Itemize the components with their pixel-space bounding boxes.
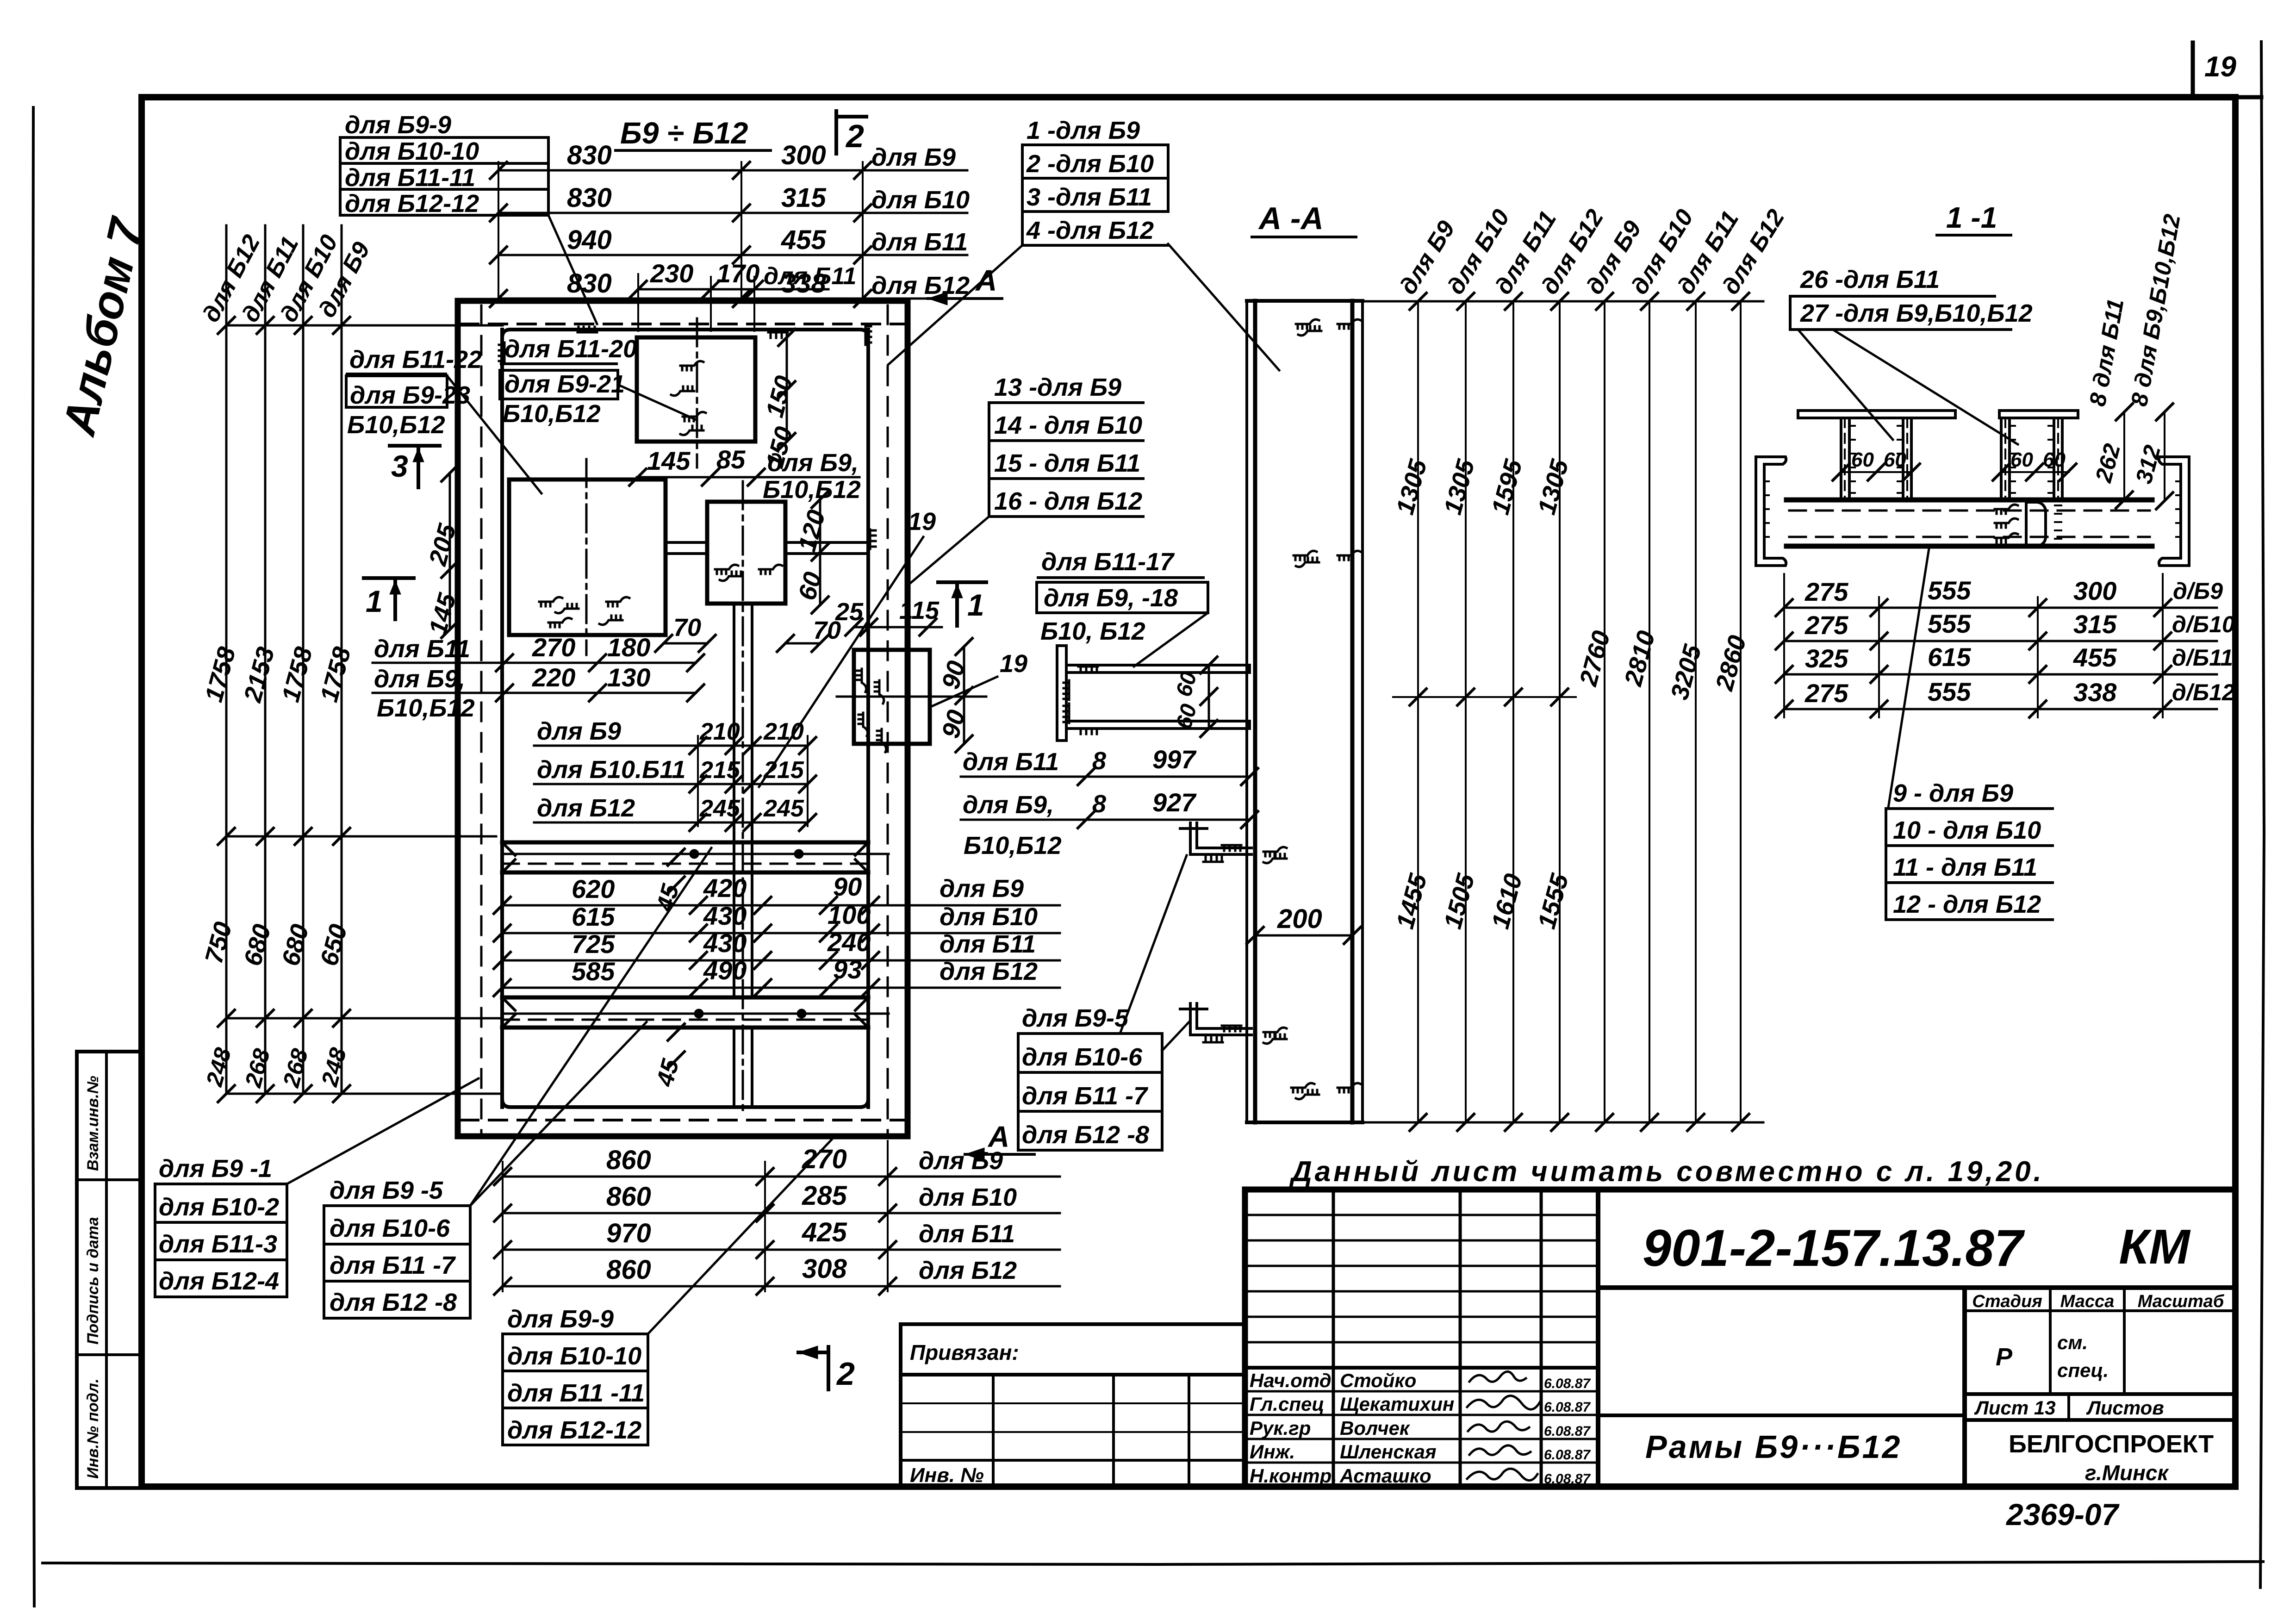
- label group для Б9-9..Б12-12 top: [340, 111, 548, 218]
- rotated dim 680 col3: [277, 922, 314, 969]
- svg-text:д/Б9: д/Б9: [2173, 578, 2223, 604]
- svg-text:Шленская: Шленская: [1340, 1441, 1437, 1463]
- plan inner top chord line: [502, 330, 868, 338]
- svg-text:45: 45: [651, 1056, 684, 1090]
- label group для Б9-9..Б12-12 bottom: [503, 1305, 648, 1445]
- privyazan box: [901, 1324, 1245, 1487]
- section marker 2 bottom: [798, 1346, 855, 1392]
- svg-text:1 -для Б9: 1 -для Б9: [1027, 117, 1140, 144]
- signature texts column name: [1339, 1370, 1454, 1487]
- svg-text:2760: 2760: [1574, 628, 1615, 690]
- label для Б11-22: [347, 346, 482, 374]
- signature texts column role: [1250, 1370, 1337, 1487]
- svg-text:для Б11-20: для Б11-20: [504, 335, 637, 363]
- svg-text:Стойко: Стойко: [1340, 1370, 1416, 1391]
- rotated dim 268 col3: [278, 1046, 313, 1090]
- label 19 lower with leader: [930, 650, 1027, 707]
- dim row 620|420|90 для Б9: [494, 872, 1060, 914]
- page number box 19: [2193, 43, 2261, 97]
- stub2 webs: [2001, 418, 2062, 500]
- rotated dim 1305 L4: [1533, 456, 1574, 517]
- leaders from 26/27 labels to stubs: [1798, 330, 2018, 444]
- svg-text:д/Б12: д/Б12: [2172, 679, 2235, 705]
- svg-text:210: 210: [763, 718, 804, 745]
- svg-text:для Б9-9: для Б9-9: [345, 111, 451, 139]
- svg-text:275: 275: [1804, 577, 1848, 606]
- svg-text:2860: 2860: [1710, 633, 1751, 694]
- extension verticals of top dims: [498, 162, 863, 299]
- svg-text:455: 455: [2073, 643, 2117, 672]
- rotated dim 1610 L3: [1487, 871, 1528, 932]
- dim 25|115 right of plan: [835, 597, 942, 635]
- svg-text:Альбом 7: Альбом 7: [53, 212, 153, 441]
- svg-text:д/Б10: д/Б10: [2172, 611, 2235, 637]
- cross band 2: [502, 997, 889, 1028]
- svg-text:1505: 1505: [1439, 871, 1480, 932]
- label для Б9-23 boxed: [346, 376, 470, 439]
- svg-text:13 -для Б9: 13 -для Б9: [994, 374, 1121, 401]
- svg-text:650: 650: [315, 922, 353, 969]
- svg-text:для Б10-10: для Б10-10: [345, 137, 479, 165]
- signature dates: [1544, 1376, 1591, 1487]
- leader from box 1-4 to column A-A: [1168, 244, 1279, 370]
- slanted header для Б9 L1: [1394, 216, 1460, 299]
- rotated dim 248 col1: [201, 1045, 236, 1090]
- A-A vertical dim line 3: [1512, 301, 1514, 1122]
- svg-text:60: 60: [1884, 448, 1906, 471]
- rotated dim 268 col2: [240, 1046, 275, 1090]
- svg-text:для Б11: для Б11: [374, 635, 470, 663]
- horizontal rib left segment: [666, 542, 707, 554]
- svg-text:А -А: А -А: [1258, 201, 1324, 236]
- svg-text:2 -для Б10: 2 -для Б10: [1026, 150, 1154, 178]
- svg-text:275: 275: [1804, 679, 1848, 708]
- beam mid joint: [1995, 502, 2061, 546]
- svg-text:для Б9,: для Б9,: [963, 791, 1054, 819]
- doc number 2369-07: [2005, 1497, 2120, 1532]
- svg-text:300: 300: [2073, 576, 2116, 605]
- column A-A contour: [1247, 301, 1363, 1122]
- svg-text:8: 8: [1092, 747, 1106, 775]
- bolt dots band 2: [694, 1009, 806, 1018]
- stamp list row: [1965, 1394, 2235, 1420]
- dim 70 right: [777, 617, 841, 652]
- title А-А: [1252, 201, 1356, 237]
- dashed line bottom chord: [460, 1119, 905, 1121]
- rotated header для Б12: [197, 230, 265, 327]
- mid tick line of dim columns: [218, 1010, 503, 1027]
- title block thick row line: [1245, 1366, 1598, 1370]
- svg-text:Лист 13: Лист 13: [1974, 1397, 2056, 1419]
- rotated dim 2860 L8: [1710, 633, 1751, 694]
- slanted label 8 для Б11: [2084, 297, 2129, 408]
- svg-text:26 -для Б11: 26 -для Б11: [1800, 266, 1940, 293]
- left big gusset plate: [509, 480, 666, 635]
- svg-text:для Б9 -5: для Б9 -5: [330, 1177, 443, 1204]
- sheet outer bottom line: [43, 1562, 2263, 1564]
- rotated dim 1758 col4: [315, 644, 356, 705]
- svg-text:1: 1: [967, 588, 984, 622]
- svg-text:см.: см.: [2057, 1332, 2088, 1353]
- svg-text:180: 180: [607, 633, 650, 662]
- top plate left 1-1: [1798, 411, 1955, 418]
- slanted label 8 для Б9,Б10,Б12: [2126, 212, 2185, 408]
- svg-text:Р: Р: [1996, 1343, 2013, 1371]
- svg-text:420: 420: [703, 873, 747, 903]
- angle clip 2: [1180, 1003, 1251, 1042]
- svg-text:60: 60: [2010, 448, 2033, 471]
- svg-text:1595: 1595: [1487, 456, 1528, 517]
- svg-text:Нач.отд: Нач.отд: [1250, 1370, 1332, 1391]
- section marker 2 top: [836, 111, 866, 154]
- svg-text:2369-07: 2369-07: [2005, 1497, 2120, 1532]
- dim row 830|338 for Б12: [490, 268, 970, 307]
- svg-text:248: 248: [316, 1045, 351, 1090]
- slanted header для Б10 L6: [1626, 205, 1699, 299]
- extension verticals 1-1 dims: [1784, 574, 2163, 717]
- rotated dim 680 col2: [239, 922, 276, 969]
- A-A vertical dim line 8: [1740, 301, 1742, 1122]
- dim row 860|285 для Б10: [494, 1181, 1060, 1221]
- svg-text:8: 8: [1092, 790, 1106, 818]
- slanted header для Б11 L3: [1490, 206, 1562, 299]
- svg-text:1758: 1758: [315, 644, 356, 705]
- title block outer: [1245, 1190, 2235, 1487]
- svg-text:115: 115: [899, 597, 940, 624]
- title block thin rows: [1245, 1215, 1598, 1342]
- svg-text:3205: 3205: [1666, 641, 1707, 703]
- svg-text:Б9 ÷ Б12: Б9 ÷ Б12: [620, 116, 748, 150]
- plan inner bottom chord line: [502, 1099, 868, 1107]
- signature row lines: [1245, 1391, 1598, 1463]
- svg-text:для Б10.Б11: для Б10.Б11: [537, 756, 685, 784]
- drawing frame border: [142, 97, 2235, 1487]
- dashed centerline left column: [480, 305, 483, 1133]
- svg-text:Масса: Масса: [2060, 1292, 2115, 1311]
- svg-text:325: 325: [1805, 644, 1848, 673]
- angle clip 1: [1180, 823, 1251, 862]
- dim column line for Б10: [302, 225, 305, 1094]
- signature squiggles: [1467, 1371, 1540, 1480]
- svg-text:90: 90: [937, 707, 971, 741]
- svg-text:2153: 2153: [238, 644, 280, 706]
- rotated dim 1555 L4: [1533, 871, 1574, 932]
- svg-text:1: 1: [366, 584, 383, 618]
- dim row 860|308 для Б12: [494, 1254, 1060, 1295]
- svg-text:150: 150: [761, 373, 798, 421]
- dim row 860|270 для Б9: [494, 1144, 1060, 1185]
- note Данный лист: [1289, 1156, 2044, 1188]
- dim row 275|555|338 д/Б12: [1776, 677, 2235, 717]
- svg-text:9 - для Б9: 9 - для Б9: [1893, 779, 2013, 807]
- dashed centerline right column: [887, 305, 889, 1133]
- svg-text:для Б11: для Б11: [764, 263, 856, 290]
- leaders from group Б9-5 to angle clips: [1120, 855, 1190, 1051]
- svg-text:для Б11-22: для Б11-22: [349, 346, 482, 374]
- svg-text:для Б11-11: для Б11-11: [345, 164, 475, 192]
- svg-text:6.08.87: 6.08.87: [1544, 1471, 1591, 1487]
- svg-text:Инв. №: Инв. №: [910, 1464, 984, 1487]
- leader from group 1-4 to plan: [287, 1078, 479, 1184]
- rotated dim 1595 L3: [1487, 456, 1528, 517]
- label group для Б9-1..Б12-4: [155, 1155, 287, 1297]
- rib centerline dashdot: [742, 481, 744, 1111]
- dim 70 left: [655, 614, 716, 652]
- label box 1-для Б9..4-для Б12: [1022, 117, 1168, 245]
- svg-text:Данный лист читать совместно с: Данный лист читать совместно с л. 19,20.: [1289, 1156, 2044, 1188]
- label group для Б9-5..Б12-8: [324, 1177, 470, 1318]
- svg-text:для Б11: для Б11: [963, 748, 1059, 776]
- label для Б9-21 boxed: [500, 370, 625, 428]
- beam detail flange plate: [1057, 646, 1066, 741]
- svg-text:19: 19: [2204, 51, 2236, 83]
- svg-text:6.08.87: 6.08.87: [1544, 1376, 1591, 1391]
- dim row 230|170 для Б11: [630, 259, 856, 331]
- svg-text:для Б12: для Б12: [919, 1257, 1017, 1284]
- bottom tick line of dim columns: [218, 1085, 503, 1102]
- svg-text:Волчек: Волчек: [1340, 1417, 1410, 1439]
- A-A vertical dim line 4: [1559, 301, 1561, 1122]
- svg-text:230: 230: [650, 259, 693, 288]
- svg-text:спец.: спец.: [2057, 1359, 2109, 1381]
- weld clusters in column: [1263, 319, 1361, 1099]
- svg-text:Гл.спец: Гл.спец: [1250, 1393, 1324, 1415]
- svg-text:240: 240: [827, 928, 871, 957]
- svg-text:45: 45: [651, 881, 684, 915]
- svg-text:215: 215: [699, 757, 740, 784]
- svg-text:338: 338: [2073, 678, 2117, 707]
- weld symbols in top stiffener: [671, 361, 706, 435]
- label для Б11-20: [501, 335, 637, 364]
- A-A vertical dim line 1: [1417, 301, 1419, 1122]
- svg-text:940: 940: [567, 225, 612, 255]
- svg-text:для Б9,: для Б9,: [767, 449, 859, 477]
- svg-text:970: 970: [606, 1218, 651, 1248]
- svg-text:60: 60: [1851, 448, 1874, 471]
- svg-text:16 - для Б12: 16 - для Б12: [994, 487, 1142, 515]
- leader from box 13-16: [908, 517, 989, 585]
- top tick line of dim columns: [218, 317, 503, 334]
- top tick line A-A dims: [1363, 293, 1763, 310]
- gusset box at right column: [854, 650, 930, 744]
- svg-text:для Б11 -7: для Б11 -7: [330, 1252, 456, 1279]
- svg-text:19: 19: [908, 508, 936, 536]
- svg-text:85: 85: [716, 445, 746, 474]
- dim rows 210/215/245: [534, 717, 816, 831]
- dim column line for Б11: [264, 225, 267, 1094]
- svg-text:Привязан:: Привязан:: [910, 1340, 1019, 1364]
- svg-text:1 -1: 1 -1: [1946, 201, 1997, 234]
- svg-text:для Б12: для Б12: [537, 794, 635, 822]
- svg-text:1555: 1555: [1533, 871, 1574, 932]
- sheet outer right line: [2260, 42, 2264, 1588]
- sheet outer left line: [32, 107, 34, 1606]
- svg-text:для Б11 -11: для Б11 -11: [507, 1379, 645, 1407]
- svg-text:90: 90: [833, 872, 862, 901]
- slanted header для Б11 L7: [1672, 206, 1744, 299]
- svg-text:830: 830: [567, 183, 612, 213]
- label 19 upper with leader: [759, 508, 936, 787]
- rotated dim 3205 L7: [1666, 641, 1707, 703]
- dashed line top chord: [460, 323, 905, 325]
- svg-text:308: 308: [802, 1254, 847, 1284]
- svg-text:для Б9,: для Б9,: [374, 665, 465, 693]
- tick line of dim columns at plan band1: [218, 828, 496, 845]
- cross band 1: [502, 842, 889, 872]
- leader from Б9-18 box to beam: [1134, 613, 1208, 666]
- dim 45 band1: [651, 849, 684, 915]
- svg-text:620: 620: [572, 874, 615, 903]
- bolt dots band 1: [690, 849, 803, 859]
- svg-text:Асташко: Асташко: [1339, 1465, 1431, 1487]
- svg-text:490: 490: [703, 956, 747, 985]
- svg-text:312: 312: [2131, 442, 2166, 486]
- dim column line for Б12: [225, 225, 228, 1094]
- dim column line for Б9: [341, 225, 343, 1094]
- svg-text:для Б11: для Б11: [940, 930, 1036, 958]
- leader from Б9-21 box to stiffener: [618, 385, 695, 419]
- section marker 1 right: [938, 582, 986, 626]
- rotated header для Б11: [236, 232, 304, 326]
- svg-text:для Б9 -1: для Б9 -1: [159, 1155, 272, 1183]
- svg-text:725: 725: [572, 929, 615, 959]
- weld symbols in left gusset: [539, 597, 629, 627]
- plan inner left flange line: [500, 330, 504, 1107]
- rotated dim 1758 col3: [277, 644, 318, 705]
- svg-text:268: 268: [240, 1046, 275, 1090]
- svg-text:для Б9, -18: для Б9, -18: [1044, 584, 1178, 612]
- label для Б9,-18 boxed: [1037, 582, 1208, 645]
- left end channel 1-1: [1756, 457, 1786, 566]
- svg-text:3: 3: [391, 449, 408, 483]
- rotated dim 1305 L2: [1439, 456, 1480, 517]
- A-A vertical dim line 2: [1465, 301, 1467, 1122]
- svg-text:БЕЛГОСПРОЕКТ: БЕЛГОСПРОЕКТ: [2009, 1430, 2214, 1458]
- rotated dim 1455 L1: [1391, 871, 1432, 932]
- dim 90/90 right gusset: [937, 638, 972, 752]
- svg-text:555: 555: [1928, 576, 1971, 605]
- svg-text:Б10,Б12: Б10,Б12: [377, 694, 475, 722]
- svg-text:268: 268: [278, 1046, 313, 1090]
- svg-text:для Б12 -8: для Б12 -8: [330, 1289, 457, 1316]
- svg-text:425: 425: [802, 1217, 847, 1247]
- dim 150/150 of stiffener: [761, 329, 798, 471]
- svg-text:для Б10: для Б10: [919, 1183, 1017, 1211]
- svg-text:270: 270: [532, 633, 575, 662]
- rotated dim 248 col4: [316, 1045, 351, 1090]
- dim row 145|85 для Б9,Б10,Б12: [629, 445, 861, 504]
- dim row для Б11|8|997: [961, 745, 1258, 785]
- svg-text:750: 750: [200, 919, 237, 967]
- weld ticks on beam flange: [1064, 666, 1098, 734]
- section marker 1 left: [364, 578, 414, 619]
- leader from label group to plan corner: [548, 215, 597, 324]
- svg-text:830: 830: [567, 140, 612, 170]
- svg-text:860: 860: [606, 1145, 651, 1175]
- rotated dim 2153 col2: [238, 644, 280, 706]
- slanted header для Б12 L4: [1536, 205, 1609, 299]
- bottom tick line A-A dims: [1363, 1114, 1763, 1131]
- object cell Рамы Б9-Б12: [1598, 1415, 1965, 1465]
- svg-text:для Б9-23: для Б9-23: [350, 381, 470, 409]
- svg-text:для Б10: для Б10: [940, 903, 1038, 931]
- code cell 901-2-157.13.87 КМ: [1598, 1190, 2235, 1487]
- label group 9-для Б9..12-для Б12: [1886, 779, 2053, 920]
- svg-text:455: 455: [781, 225, 827, 255]
- album label: Альбом 7: [53, 212, 153, 441]
- svg-text:1305: 1305: [1439, 456, 1480, 517]
- svg-text:615: 615: [572, 902, 615, 931]
- svg-text:1455: 1455: [1391, 871, 1432, 932]
- svg-text:245: 245: [763, 795, 804, 822]
- rotated header для Б10: [275, 230, 343, 327]
- svg-text:615: 615: [1928, 642, 1971, 672]
- svg-text:145: 145: [647, 446, 691, 475]
- leader from group 9-12 to beam: [1888, 548, 1929, 808]
- svg-text:А: А: [975, 264, 997, 297]
- svg-text:для Б11 -7: для Б11 -7: [1022, 1082, 1149, 1110]
- svg-text:927: 927: [1152, 788, 1197, 817]
- svg-text:2810: 2810: [1619, 628, 1660, 690]
- rotated dim 1505 L2: [1439, 871, 1480, 932]
- centerline of right gusset: [837, 696, 986, 698]
- slanted header для Б9 L5: [1581, 216, 1647, 299]
- svg-text:1758: 1758: [277, 644, 318, 705]
- dim 120/60 right of mid stiffener: [793, 491, 831, 613]
- svg-text:680: 680: [239, 922, 276, 969]
- leader from Б9-23 box to left gusset: [447, 376, 541, 493]
- dim row 325|615|455 д/Б11: [1776, 642, 2233, 683]
- view arrow А top: [928, 264, 1002, 305]
- svg-text:для Б12-4: для Б12-4: [159, 1267, 279, 1295]
- stub1 webs: [1841, 418, 1911, 500]
- svg-text:1758: 1758: [200, 644, 241, 705]
- svg-text:для Б9: для Б9: [537, 717, 621, 745]
- weld ticks plan top left corner: [499, 327, 597, 362]
- svg-text:для Б10-6: для Б10-6: [1022, 1043, 1143, 1071]
- svg-text:285: 285: [802, 1181, 847, 1211]
- svg-text:1305: 1305: [1391, 456, 1432, 517]
- slanted header для Б10 L2: [1442, 205, 1515, 299]
- dim 60,60 stub2: [1993, 448, 2076, 480]
- stamp right sub-block: [1965, 1288, 2235, 1487]
- svg-text:6.08.87: 6.08.87: [1544, 1447, 1591, 1463]
- svg-text:8 для Б9,Б10,Б12: 8 для Б9,Б10,Б12: [2126, 212, 2185, 408]
- leaders from group 5-8 to bands: [470, 848, 711, 1206]
- svg-text:для Б9-21: для Б9-21: [504, 370, 625, 398]
- org name БЕЛГОСПРОЕКТ: [2009, 1430, 2214, 1485]
- svg-text:11 - для Б11: 11 - для Б11: [1893, 853, 2037, 881]
- mid small stiffener plate: [707, 502, 785, 604]
- svg-text:2: 2: [836, 1356, 855, 1392]
- svg-text:Б10,Б12: Б10,Б12: [964, 832, 1062, 859]
- svg-text:585: 585: [572, 957, 615, 986]
- svg-text:10 - для Б10: 10 - для Б10: [1893, 816, 2041, 844]
- dim 60/60 beam detail: [1171, 657, 1217, 737]
- svg-text:А: А: [987, 1120, 1009, 1153]
- svg-text:100: 100: [828, 900, 871, 929]
- svg-text:680: 680: [277, 922, 314, 969]
- section marker 3: [390, 446, 440, 487]
- title 1-1: [1937, 201, 2011, 235]
- svg-text:901-2-157.13.87: 901-2-157.13.87: [1643, 1219, 2025, 1277]
- A-A vertical dim line 7: [1695, 301, 1697, 1122]
- dim row 940|455 for Б11: [490, 225, 968, 263]
- svg-text:для Б12-12: для Б12-12: [345, 190, 479, 218]
- svg-text:для Б12 -8: для Б12 -8: [1022, 1121, 1149, 1149]
- dim row 585|490|93 для Б12: [494, 955, 1060, 996]
- dim row 615|430|100 для Б10: [494, 900, 1060, 941]
